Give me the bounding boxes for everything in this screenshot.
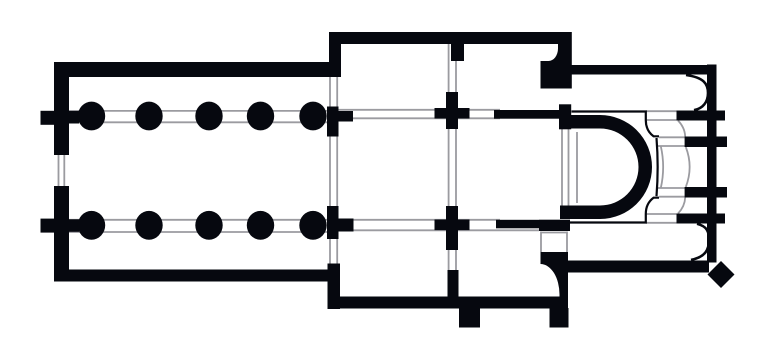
respond south (69, 219, 79, 232)
crossing pier SW (327, 206, 354, 239)
apse (560, 115, 653, 219)
nave west wall upper (54, 62, 69, 155)
chancel pilaster 1 (677, 111, 726, 121)
chevet outer molding arc (686, 147, 690, 187)
chevet outer slant north (678, 121, 685, 137)
transept south wall (329, 297, 568, 309)
chancel pilaster 4 (677, 214, 726, 224)
corner diamond (708, 261, 735, 288)
south doorway jamb lines (541, 232, 567, 253)
chevet bottom molding lines (646, 214, 677, 223)
chevet connector lines bar3 (658, 188, 686, 197)
west buttress north (41, 111, 55, 125)
chevet profile north (572, 112, 660, 197)
west buttress south (41, 219, 55, 233)
chevet outer slant south (678, 198, 685, 214)
column N1 (78, 102, 105, 131)
corner fillet SE (691, 224, 709, 260)
nave north wall (54, 62, 341, 77)
column N5 (299, 102, 326, 131)
transept north wall (329, 32, 572, 44)
arcade wall south (496, 220, 570, 229)
chancel north wall (572, 65, 717, 75)
west portal gap lines (59, 152, 65, 188)
chevet inner molding pair line (661, 146, 663, 188)
chancel pilaster 2 (685, 137, 727, 148)
nave south wall (54, 270, 339, 282)
column S5 (299, 211, 326, 240)
apse pier north (559, 104, 571, 129)
crossing pier NW (327, 107, 353, 137)
stylobate lines south colonnade (67, 220, 539, 232)
chevet connector lines bar2 (658, 137, 686, 146)
chevet top molding lines (646, 111, 677, 120)
column N2 (135, 102, 162, 131)
arcade wall north (494, 110, 559, 119)
transept divider line (449, 44, 456, 297)
column N4 (247, 102, 274, 131)
column S2 (135, 211, 162, 240)
apse chord lines (562, 129, 577, 206)
transept east pier blob (541, 61, 559, 89)
column S4 (247, 211, 274, 240)
corner fillet NE (686, 75, 708, 110)
transept west wall upper (329, 32, 341, 77)
respond north (69, 111, 79, 124)
divider pier south (435, 206, 470, 250)
transept east wall fillet (549, 49, 559, 62)
southeast passage wall (541, 252, 569, 309)
transept east wall upper (558, 32, 572, 89)
south buttress west (459, 308, 480, 328)
chevet profile south (568, 198, 659, 223)
chancel pilaster 3 (685, 187, 727, 198)
divider pier bottom (448, 270, 459, 297)
south buttress east (550, 308, 569, 328)
nave west wall lower (54, 186, 69, 281)
chancel south wall (568, 261, 709, 273)
stylobate lines north colonnade (67, 110, 500, 123)
column N3 (195, 102, 222, 131)
column S3 (195, 211, 222, 240)
divider pier top (451, 44, 464, 61)
column S1 (78, 211, 105, 240)
chancel east wall (707, 65, 717, 263)
transept west arcade line (330, 77, 337, 297)
divider pier north (435, 92, 470, 129)
transept west wall lower (328, 264, 341, 310)
